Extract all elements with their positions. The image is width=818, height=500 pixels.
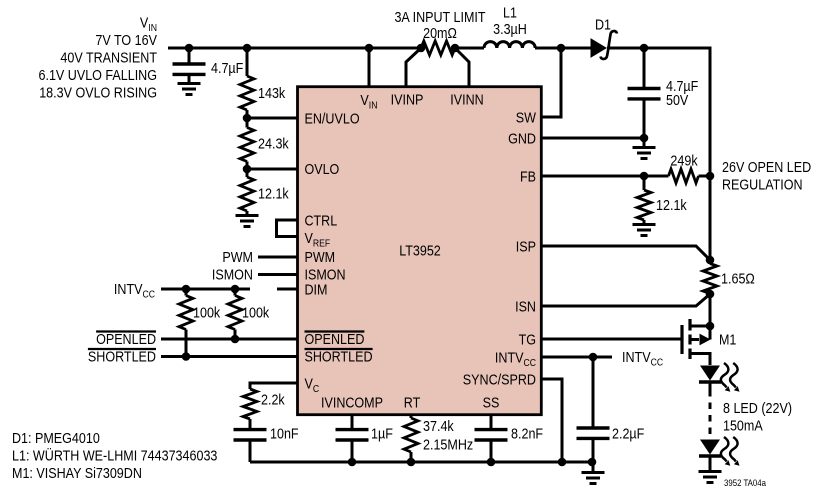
svg-text:ISN: ISN — [515, 299, 536, 316]
emission arrows top LED — [721, 363, 740, 392]
svg-text:24.3k: 24.3k — [258, 136, 289, 153]
node dot FB-12.1k — [640, 172, 649, 181]
node dot rail-VIN pin — [365, 44, 374, 53]
wire rail diode to top-right corner, down right side — [607, 48, 710, 264]
LED top of string — [699, 366, 721, 383]
resistor 100k right — [234, 289, 237, 296]
transistor M1 PMOS — [682, 319, 714, 365]
wire ISP — [541, 246, 710, 260]
svg-text:SW: SW — [516, 110, 537, 127]
node dot EN/UVLO — [243, 114, 252, 123]
node dot rail-143k — [243, 44, 252, 53]
svg-text:D1: PMEG4010: D1: PMEG4010 — [12, 430, 100, 447]
svg-text:18.3V OVLO RISING: 18.3V OVLO RISING — [39, 85, 157, 102]
svg-text:CTRL: CTRL — [305, 213, 338, 230]
resistor 12.1k fb — [643, 176, 646, 190]
emission arrows bottom LED — [721, 437, 740, 466]
resistor 143k — [246, 48, 249, 76]
dashed LED string wire — [709, 384, 712, 391]
svg-text:RT: RT — [404, 395, 421, 412]
ground bottom bus — [592, 462, 595, 471]
node dot output cap tap — [640, 44, 649, 53]
wire EN/UVLO — [247, 117, 298, 120]
bottom ground bus wire — [250, 461, 593, 464]
svg-text:26V OPEN LED: 26V OPEN LED — [722, 159, 811, 176]
svg-text:FB: FB — [520, 169, 536, 186]
svg-text:D1: D1 — [595, 17, 611, 34]
svg-text:8 LED (22V): 8 LED (22V) — [723, 400, 792, 417]
IC U1 LT3952 body — [298, 87, 542, 415]
svg-text:4.7µF: 4.7µF — [211, 60, 243, 77]
wire SS — [490, 415, 493, 430]
node dot rail-input cap — [185, 44, 194, 53]
node dot 249k-rail — [706, 172, 715, 181]
node dot 2.2uF-bus — [588, 458, 597, 467]
wire LED to ground — [709, 457, 712, 471]
svg-text:1.65Ω: 1.65Ω — [721, 271, 755, 288]
svg-text:12.1k: 12.1k — [258, 186, 289, 203]
resistor 24.3k — [246, 118, 249, 128]
svg-text:SHORTLED: SHORTLED — [88, 349, 156, 366]
svg-text:PWM: PWM — [222, 249, 253, 266]
svg-text:IVINN: IVINN — [450, 92, 483, 109]
wire SYNC/SPRD — [541, 379, 562, 462]
node dot SYNC-bus — [558, 458, 567, 467]
resistor 20mOhm sense — [421, 41, 455, 55]
wire OVLO — [247, 168, 298, 171]
node dot OVLO — [243, 165, 252, 174]
svg-text:7V TO 16V: 7V TO 16V — [95, 32, 157, 49]
node dot 100k right top — [231, 285, 240, 294]
capacitor 8.2nF — [475, 430, 508, 440]
inductor L1 — [484, 42, 535, 48]
svg-text:150mA: 150mA — [723, 418, 763, 435]
svg-text:LT3952: LT3952 — [399, 243, 441, 260]
svg-text:100k: 100k — [242, 305, 270, 322]
resistor 2.2k — [243, 389, 257, 419]
wire GND — [541, 137, 644, 140]
capacitor 4.7uF 50V output — [643, 48, 646, 88]
ground GND pin — [643, 138, 646, 146]
svg-text:6.1V UVLO FALLING: 6.1V UVLO FALLING — [39, 67, 158, 84]
wire sense to M1 source — [709, 294, 712, 327]
capacitor 1uF — [336, 430, 369, 440]
node dot 1uF-bus — [348, 458, 357, 467]
LED bottom of string — [699, 440, 721, 457]
wire SHORTLED — [161, 355, 298, 358]
resistor 249k — [669, 169, 699, 183]
node dot INTVCC-2.2uF — [589, 353, 598, 362]
ground 12.1k fb — [633, 225, 656, 236]
svg-text:EN/UVLO: EN/UVLO — [305, 111, 360, 128]
wire INTVCC right — [541, 356, 612, 359]
wire VIN rail left segment — [168, 47, 421, 50]
wire VIN pin drop — [368, 48, 371, 87]
wire IVINN leg — [455, 48, 469, 87]
capacitor 4.7uF input — [188, 48, 191, 64]
svg-text:PWM: PWM — [305, 249, 336, 266]
svg-text:249k: 249k — [670, 153, 698, 170]
svg-text:100k: 100k — [193, 305, 221, 322]
node dot RT-bus — [407, 458, 416, 467]
capacitor 10nF — [234, 430, 267, 440]
wire SW — [541, 48, 561, 117]
svg-text:L1: L1 — [503, 5, 517, 22]
svg-text:M1: M1 — [719, 332, 736, 349]
diode D1 schottky — [591, 39, 606, 57]
resistor 37.4k — [404, 418, 418, 452]
svg-text:12.1k: 12.1k — [656, 197, 687, 214]
svg-text:50V: 50V — [666, 92, 689, 109]
node dot ISN-sense — [706, 290, 715, 299]
ground input cap — [178, 84, 201, 95]
svg-text:143k: 143k — [258, 85, 286, 102]
wire ISN — [541, 294, 710, 306]
wire INTVCC left rail — [161, 288, 250, 291]
svg-text:DIM: DIM — [305, 282, 328, 299]
wire FB — [541, 175, 710, 178]
wire TG — [541, 338, 680, 341]
svg-text:2.15MHz: 2.15MHz — [423, 437, 473, 454]
node dot 20mohm left — [417, 44, 426, 53]
svg-text:37.4k: 37.4k — [423, 418, 454, 435]
wire IVINCOMP — [351, 415, 354, 430]
svg-text:10nF: 10nF — [270, 426, 299, 443]
node dot 20mohm right — [451, 44, 460, 53]
svg-text:1µF: 1µF — [371, 426, 393, 443]
svg-text:3A INPUT LIMIT: 3A INPUT LIMIT — [394, 9, 485, 26]
svg-text:OPENLED: OPENLED — [96, 331, 156, 348]
svg-text:GND: GND — [508, 131, 536, 148]
svg-text:SYNC/SPRD: SYNC/SPRD — [463, 372, 536, 389]
svg-text:M1: VISHAY Si7309DN: M1: VISHAY Si7309DN — [12, 465, 142, 482]
wire VC — [250, 383, 298, 389]
ground uvlo divider — [236, 216, 259, 227]
svg-text:IVINCOMP: IVINCOMP — [321, 395, 383, 412]
node dot OPENLED-100k — [231, 335, 240, 344]
node dot 100k left top — [182, 285, 191, 294]
svg-text:REGULATION: REGULATION — [722, 177, 803, 194]
wire RT — [410, 415, 413, 418]
wire rail inductor to diode — [535, 47, 591, 50]
svg-text:2.2k: 2.2k — [261, 392, 285, 409]
svg-text:8.2nF: 8.2nF — [511, 426, 543, 443]
svg-text:TG: TG — [519, 332, 536, 349]
svg-text:SS: SS — [483, 395, 500, 412]
ground LED string — [699, 472, 722, 483]
resistor 1.65 Ohm sense — [703, 264, 717, 294]
svg-text:2.2µF: 2.2µF — [612, 426, 644, 443]
wire rail 20mOhm to inductor — [455, 47, 484, 50]
svg-text:OVLO: OVLO — [305, 161, 340, 178]
wire PWM — [258, 256, 298, 259]
wire IVINP leg — [406, 48, 421, 87]
svg-text:SHORTLED: SHORTLED — [305, 349, 373, 366]
node dot SW tap — [557, 44, 566, 53]
node dot ISP-sense — [706, 256, 715, 265]
capacitor 2.2uF — [592, 357, 595, 428]
svg-text:L1: WÜRTH WE-LHMI 74437346033: L1: WÜRTH WE-LHMI 74437346033 — [12, 447, 217, 465]
resistor 100k left — [185, 289, 188, 296]
wire OPENLED — [161, 338, 298, 341]
node dot SHORTLED-100k — [182, 352, 191, 361]
node dot GND-cap — [640, 134, 649, 143]
svg-text:ISMON: ISMON — [212, 267, 253, 284]
svg-text:3952 TA04a: 3952 TA04a — [724, 478, 767, 489]
wire DIM stub — [277, 288, 298, 291]
svg-text:40V TRANSIENT: 40V TRANSIENT — [60, 50, 157, 67]
svg-text:20mΩ: 20mΩ — [423, 25, 457, 42]
svg-text:IVINP: IVINP — [391, 92, 424, 109]
wire ISMON — [258, 273, 298, 276]
resistor 12.1k uvlo — [246, 169, 249, 177]
svg-text:OPENLED: OPENLED — [305, 331, 365, 348]
svg-text:3.3µH: 3.3µH — [493, 21, 527, 38]
node dot SS-bus — [487, 458, 496, 467]
svg-text:ISP: ISP — [516, 239, 536, 256]
jumper CTRL to VREF — [277, 220, 298, 237]
